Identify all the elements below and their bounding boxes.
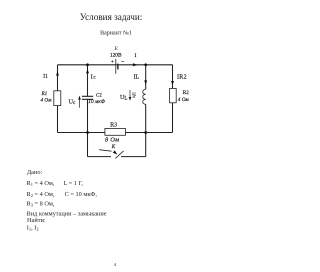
- current arrow IR2: [171, 74, 187, 85]
- svg-text:Вариант №1: Вариант №1: [100, 31, 132, 37]
- current arrow I: [133, 53, 138, 66]
- svg-text:I1, I2: I1, I2: [27, 225, 39, 232]
- svg-text:IL: IL: [134, 74, 140, 80]
- wire top: [58, 64, 173, 66]
- wire left rail: [57, 65, 59, 133]
- battery short electrode: [117, 64, 119, 70]
- node bottom inductor junction: [144, 131, 147, 134]
- svg-text:R3: R3: [110, 122, 117, 128]
- svg-text:I1: I1: [43, 73, 48, 79]
- current arrow Ic: [86, 69, 96, 80]
- switch blade: [99, 150, 111, 152]
- switch closing arrowhead: [113, 150, 118, 154]
- svg-text:E: E: [114, 46, 119, 52]
- svg-text:Найти:: Найти:: [27, 217, 46, 224]
- svg-text:1Г: 1Г: [132, 95, 137, 99]
- current arrow I1: [43, 71, 59, 80]
- voltage arrow UL: [120, 90, 131, 102]
- svg-text:K: K: [111, 145, 116, 150]
- svg-text:R1: R1: [41, 91, 48, 97]
- capacitor C1: [82, 93, 106, 105]
- node top capacitor junction: [86, 63, 89, 66]
- svg-text:Дано:: Дано:: [27, 169, 43, 176]
- svg-text:R1 = 4 Ом,L = 1 Г,: R1 = 4 Ом,L = 1 Г,: [27, 180, 84, 187]
- given text block: [27, 169, 107, 232]
- resistor R1: [41, 91, 61, 106]
- svg-text:IR2: IR2: [177, 74, 187, 80]
- current arrow IL: [134, 74, 148, 84]
- wire inductor branch lower: [145, 104, 147, 132]
- svg-text:4: 4: [114, 262, 117, 267]
- minus sign: [121, 61, 124, 63]
- wire capacitor branch lower: [87, 99, 89, 132]
- svg-text:R2 = 4 Ом,С = 10 мкФ,: R2 = 4 Ом,С = 10 мкФ,: [27, 191, 98, 198]
- wire right rail: [172, 65, 174, 133]
- wire switch loop left drop: [87, 133, 89, 157]
- svg-text:Условия задачи:: Условия задачи:: [80, 12, 143, 22]
- wire switch loop right drop: [145, 133, 147, 157]
- svg-text:4 Ом: 4 Ом: [178, 96, 190, 103]
- svg-text:I: I: [135, 53, 137, 59]
- resistor R2: [170, 88, 190, 102]
- svg-text:UL: UL: [120, 95, 127, 102]
- svg-text:C1: C1: [96, 93, 102, 99]
- node bottom capacitor junction: [86, 131, 89, 134]
- battery long electrode: [115, 59, 117, 74]
- svg-text:c: c: [93, 75, 96, 81]
- svg-text:Uc: Uc: [69, 99, 76, 106]
- svg-text:8 Ом: 8 Ом: [105, 137, 119, 144]
- plus sign: [111, 60, 113, 62]
- svg-text:R3 = 8 Ом,: R3 = 8 Ом,: [27, 201, 55, 208]
- switch contact tick: [115, 151, 123, 159]
- node top inductor junction: [144, 63, 147, 66]
- svg-text:120В: 120В: [110, 52, 122, 58]
- switch K: [99, 145, 123, 159]
- wire capacitor branch upper: [87, 65, 89, 96]
- svg-text:R2: R2: [183, 90, 189, 96]
- wire inductor branch upper: [145, 65, 147, 90]
- wire bottom: [58, 132, 173, 134]
- EMF source E: [110, 46, 124, 74]
- resistor R3: [105, 122, 126, 143]
- svg-text:10 мкФ: 10 мкФ: [88, 99, 105, 105]
- svg-text:4 Ом: 4 Ом: [41, 97, 53, 104]
- inductor L1: [131, 89, 146, 104]
- voltage arrow Uc: [69, 96, 81, 108]
- wire switch loop bottom left: [88, 156, 112, 158]
- wire switch loop bottom right: [121, 156, 146, 158]
